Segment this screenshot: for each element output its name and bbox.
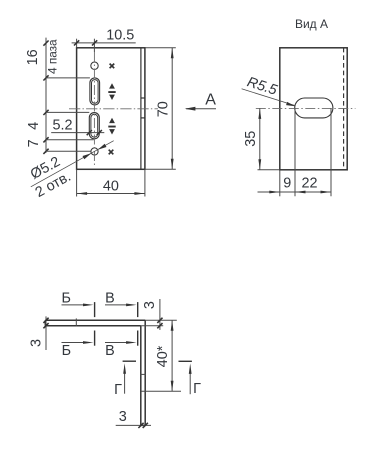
svg-text:Г: Г: [114, 382, 122, 398]
svg-text:22: 22: [301, 175, 317, 191]
svg-text:Б: Б: [61, 290, 70, 306]
svg-text:35: 35: [243, 131, 259, 147]
svg-text:3: 3: [142, 301, 158, 309]
svg-text:А: А: [205, 92, 216, 109]
svg-text:3: 3: [119, 409, 127, 425]
svg-text:40: 40: [103, 179, 119, 195]
svg-text:Г: Г: [193, 381, 201, 397]
svg-text:Б: Б: [62, 343, 71, 359]
svg-text:9: 9: [283, 175, 291, 191]
svg-text:16: 16: [25, 49, 41, 65]
svg-text:4 паза: 4 паза: [45, 39, 59, 74]
svg-text:7: 7: [26, 139, 42, 147]
svg-text:3: 3: [29, 339, 45, 347]
svg-text:В: В: [105, 290, 115, 306]
svg-text:70: 70: [156, 101, 172, 117]
svg-text:5.2: 5.2: [52, 118, 72, 134]
svg-text:10.5: 10.5: [106, 28, 134, 44]
svg-text:В: В: [105, 343, 115, 359]
svg-text:4: 4: [26, 122, 42, 130]
svg-text:40*: 40*: [155, 345, 171, 367]
svg-text:Вид А: Вид А: [295, 17, 328, 31]
